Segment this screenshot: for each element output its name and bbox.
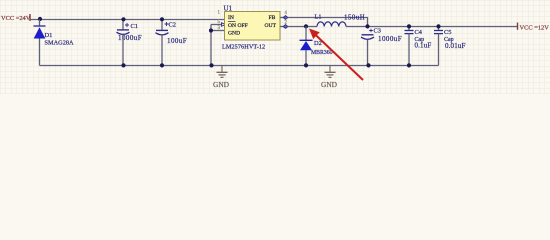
wire C2 bottom lead [161,35,163,65]
node C1 bottom [121,63,125,67]
wire FB feedback to output node [288,18,368,27]
capacitor C4 plates [405,30,414,32]
node C4 bottom [407,63,411,67]
svg-text:FB: FB [269,15,276,21]
svg-text:150uH: 150uH [344,15,365,22]
diode D1 triangle [34,27,46,38]
svg-text:1000uF: 1000uF [118,34,142,42]
power port VCC=12V bar [517,23,519,30]
capacitor C4 top lead [408,27,410,31]
node D2 junction [304,24,308,28]
diode D2 cathode bar [300,39,313,41]
svg-text:VCC =24V: VCC =24V [1,15,31,22]
node C2 bottom [160,63,164,67]
wire vertical pin5/pin3 to ground rail [210,25,212,66]
svg-text:C2: C2 [169,22,176,29]
diode D2 triangle [300,41,312,50]
capacitor C5 top lead [438,27,440,31]
svg-text:0.01uF: 0.01uF [445,42,466,50]
node VCC24 / D1 junction [38,17,42,21]
capacitor C2 top lead [161,20,163,30]
svg-text:GND: GND [213,80,230,89]
power port VCC=24V bar [29,14,31,21]
wire C4 bottom lead [408,34,410,66]
capacitor C5 plates [434,30,443,32]
capacitor C1 plates [117,29,129,31]
svg-text:GND: GND [321,80,338,89]
capacitor C3 plus sign [369,29,373,33]
wire C3 bottom lead [367,40,369,66]
ground symbol GND1 stub [221,66,223,72]
inductor L1 [317,22,346,27]
ground symbol GND1 bars [217,71,228,73]
wire D2 bottom lead [305,50,307,65]
wire OUT to inductor [288,26,317,28]
svg-text:OUT: OUT [265,23,277,29]
node ground rail junction [209,63,213,67]
pin5 input arrow [222,23,226,26]
capacitor C1 top lead [122,20,124,30]
annotation red arrow [312,32,363,81]
capacitor C2 plates [156,29,168,31]
svg-text:1000uF: 1000uF [378,35,402,43]
U1 regulator body [225,12,281,41]
svg-text:C5: C5 [444,29,451,36]
wire bottom ground rail [40,65,439,67]
wire D1 top lead [39,20,41,27]
node C1 top [121,17,125,21]
wire ON/OFF pin5 to vertical [211,24,222,26]
svg-text:VCC =12V: VCC =12V [520,25,550,32]
svg-text:C3: C3 [374,28,381,35]
wire D1 bottom lead [39,39,41,66]
pin2 OUT stub + diamond [280,26,283,28]
wire top rail left [30,19,225,21]
node D2 bottom [304,63,308,67]
ground symbol GND2 stub [329,66,331,72]
capacitor C2 plus sign [165,22,169,26]
capacitor C1 plus sign [125,23,129,27]
diode D1 cathode bar [34,25,46,27]
svg-text:D1: D1 [45,32,53,39]
wire output rail [346,26,518,28]
wire D2 top lead [305,27,307,41]
capacitor C3 plates [362,34,374,36]
svg-text:0.1uF: 0.1uF [415,42,432,50]
ground symbol GND2 bars [325,71,336,73]
svg-text:C1: C1 [131,23,138,30]
svg-text:L1: L1 [315,14,322,21]
svg-text:GND: GND [228,30,240,36]
svg-text:MBR360: MBR360 [311,50,333,56]
node C3 bottom [366,63,370,67]
node C2 top [160,17,164,21]
node pin3 junction [209,28,213,32]
pin4 FB stub + diamond [280,17,283,19]
svg-text:LM2576HVT-12: LM2576HVT-12 [222,43,265,50]
svg-text:SMAG28A: SMAG28A [45,40,74,47]
svg-text:ON OFF: ON OFF [228,23,248,29]
node C4 top [407,24,411,28]
node C3 / FB junction [365,24,369,28]
wire GND pin3 to vertical [211,30,225,32]
node C5 top [436,24,440,28]
svg-text:100uF: 100uF [167,37,187,45]
wire C5 bottom lead [438,34,440,66]
svg-text:C4: C4 [415,29,423,36]
svg-text:IN: IN [228,15,234,21]
wire C1 bottom lead [122,35,124,66]
